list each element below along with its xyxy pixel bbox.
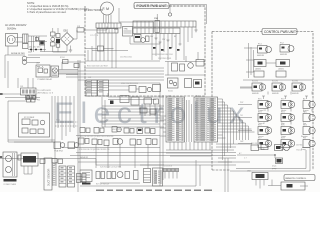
sensor cell row B [79,138,158,146]
duct sensor box [44,158,52,190]
power trans T11 [3,152,17,186]
varistor ZNR1 column [56,28,60,52]
opto coupler IC511 [168,78,202,93]
remote control parts [268,180,308,191]
svg-text:L502: L502 [36,63,40,65]
duct sensor pin column [52,162,57,186]
svg-text:4069UB: 4069UB [280,54,288,56]
svg-text:C502 R501 ZD501: C502 R501 ZD501 [158,58,171,60]
wire row6 [237,152,276,160]
cells above duct sensor [54,142,79,153]
terminal strip TB1 [0,78,54,102]
svg-text:IC5 2/6: IC5 2/6 [272,81,278,83]
power PWB unit label box [134,3,169,9]
driver Q2 row1 [272,81,286,96]
cap C51 pair [172,60,205,72]
jumper row X [164,169,179,179]
transformer tap wires [150,27,192,60]
svg-text:RY2: RY2 [281,99,284,101]
control top photocoupler PC1 [257,44,272,58]
svg-text:POWER TRANS: POWER TRANS [4,183,17,186]
wires relay right [59,62,86,75]
resistor pair R21 [96,172,105,179]
svg-text:IC511: IC511 [168,91,173,93]
driver Q11 row5 [281,138,295,152]
svg-text:CONTROL PWB UNIT: CONTROL PWB UNIT [264,30,296,34]
AC plug P1 [6,34,18,47]
driver Q5 row2 [281,99,295,113]
driver Q7 row3 [281,112,295,126]
microcontroller IC2 right column [194,96,218,143]
svg-text:PC1: PC1 [258,44,262,46]
connector CN2 block [86,80,109,96]
svg-text:IC21 R25 Q21 C24 IC22: IC21 R25 Q21 C24 IC22 SW1 [100,167,121,169]
left mid wires [5,55,85,88]
connector CN9 [247,171,268,189]
bottom right bus [230,147,310,171]
regulator IC52 [276,60,290,71]
svg-text:F11: F11 [37,100,40,102]
svg-text:POWER RELAY: POWER RELAY [38,78,53,81]
vertical bus left-mid [55,96,78,140]
buzzer BZ row2 [303,99,315,113]
svg-text:R31 C31 R32 C32 Q31: R31 C31 R32 C32 Q31 R33 C33 D31 R34 R35 [80,136,113,138]
capacitor C1 cluster [28,36,47,52]
driver Q6 row3 [258,112,272,126]
fuse pair F11 F12 [5,96,40,102]
tap labels [152,54,173,60]
ground sym T1 [194,27,197,32]
svg-text:R501 C505 D505 C507 R507: R501 C505 D505 C507 R507 [87,66,108,68]
bottom mid op-amp IC21 [80,170,92,185]
svg-text:CN9: CN9 [247,171,251,173]
svg-text:IC512 C514 R515 ZD51: IC512 C514 R515 ZD51 [121,83,138,85]
misc labels bottom mid [96,166,172,186]
wire plug to filter [8,38,23,56]
fan out FAN row3 [303,111,315,126]
note text block [27,1,90,14]
svg-text:ZNR: ZNR [154,18,159,20]
control left bus [240,43,313,88]
regulator cluster IC511 [108,85,161,93]
svg-text:RY POWER: RY POWER [24,117,35,119]
microcontroller IC1 left column [166,96,185,143]
svg-text:CMP: CMP [240,141,244,143]
power PWB unit boundary [85,6,205,96]
small box top [85,46,128,51]
watermark Electrolux [54,97,251,130]
terminal mark left edge [0,93,3,158]
svg-text:UNIT (N) (L) 1 2 3: UNIT (N) (L) 1 2 3 [37,93,54,95]
AC input text [5,24,27,30]
wire fan IC bottom [166,142,234,156]
connector CN11 dark [18,153,38,174]
small box R15 [63,60,80,68]
wire fan IC right to control [187,99,255,162]
bridge rectifier DB1 [61,31,74,46]
control PWB unit label box [262,29,297,35]
power right cluster wires [165,52,205,76]
footer text dashes [96,190,212,191]
drain pump DP [272,158,283,170]
svg-text:IC5 3/6: IC5 3/6 [292,81,298,83]
cap C21 [134,171,139,180]
row6 components [251,143,303,152]
svg-text:IC5 1/6: IC5 1/6 [252,81,258,83]
svg-text:J1 J2 J3 J4: J1 J2 J3 J4 [164,166,172,168]
svg-text:TH-A TH-B: TH-A TH-B [54,150,64,153]
wire bridge bottom [28,45,67,52]
register out row4 [301,125,315,139]
svg-text:LM431: LM431 [278,69,284,71]
svg-text:RY501: RY501 [60,57,65,59]
svg-text:RY7: RY7 [258,138,261,140]
rectifier diodes D1-D4 row [153,47,180,51]
svg-text:D501 D502 D503 D504 C501: D501 D502 D503 D504 C501 [152,54,173,56]
driver Q10 row5 [258,138,272,152]
resistor block R51 [254,71,286,77]
pump out row5 [301,138,315,152]
svg-text:RY4: RY4 [281,112,284,114]
left mid loop wire [8,101,55,142]
ground G1 [69,46,72,53]
svg-text:D11 D12 D13: D11 D12 D13 [29,47,40,49]
diode row D11 [28,47,46,51]
fan motor FM [101,2,114,23]
connector CN13 pair [77,174,87,183]
svg-text:SENSOR: SENSOR [80,157,89,159]
svg-text:4069UB: 4069UB [292,93,299,95]
noise filter block L1 [23,34,29,49]
regulator IC51 [254,60,276,71]
svg-text:3. Parts of parentheses are no: 3. Parts of parentheses are not used. [27,11,67,14]
svg-text:CN2: CN2 [88,77,91,79]
IC22 tall [144,169,151,183]
svg-text:REMOTE CONTROL: REMOTE CONTROL [286,178,307,180]
svg-text:RY3: RY3 [258,112,261,114]
svg-text:PC2: PC2 [280,43,284,45]
svg-text:CN5: CN5 [20,86,23,88]
svg-text:C.T: C.T [244,158,247,160]
5V regulator area wires [100,83,164,131]
dip block SW1 [153,168,163,186]
motor symbol M1 [51,66,59,77]
cap marks row1 [262,96,308,99]
svg-text:R61 C61 Q61: R61 C61 Q61 [251,143,261,145]
varistor ZNR2 [154,5,207,33]
connector CN12 columns [59,166,75,187]
relay box K11 [19,113,50,137]
wire bus left of IC [160,95,166,186]
capacitor C2 dark [40,41,45,46]
driver Q8 row4 [258,125,272,139]
svg-text:NOISE FILTER: NOISE FILTER [11,53,25,55]
svg-text:t° C.L: t° C.L [56,119,61,122]
svg-text:T.Sensor: T.Sensor [296,150,303,152]
relay RY2 cluster [119,8,160,44]
control grid wires [238,87,312,144]
svg-text:1 3 5 7 9 11: 1 3 5 7 9 11 [90,35,98,37]
svg-text:RY1: RY1 [258,99,261,101]
driver Q4 row2 [258,99,272,113]
transformer T1 secondary row [133,28,180,34]
transformer T1 primary row [133,21,196,27]
driver Q3 row1 [292,81,306,96]
control row labels [240,102,244,143]
small boxes mid-left [40,159,63,164]
tap ground symbols [155,38,182,45]
svg-text:LM431: LM431 [255,69,261,71]
svg-text:AC 200V 50/60Hz: AC 200V 50/60Hz [84,9,104,12]
transistor Q21 cluster [117,172,130,179]
svg-text:RY8: RY8 [281,138,284,140]
svg-text:RY6: RY6 [281,125,284,127]
resistor pair R22 [107,172,116,179]
choke coil L2 [11,53,40,64]
connector CN10 fan [96,23,121,33]
svg-text:DUCT SENSOR: DUCT SENSOR [48,168,51,186]
svg-text:IC31 R36 C36 C37 Q: IC31 R36 C36 C37 Q32 R38 C38 R39 C39 [79,149,110,151]
remote control unit box [284,175,315,181]
svg-text:C65 R65: C65 R65 [296,145,302,147]
bottom long wires [78,60,250,192]
wires under relay box [8,96,58,165]
power relay box RY11 [36,65,53,81]
svg-text:R27 C27 R28 C29: R27 C27 R28 C29 [96,184,109,186]
thermal fuse TH1 box [114,27,133,37]
driver Q9 row4 [281,125,295,139]
svg-text:C511 R511 D511: C511 R511 D511 [120,57,132,59]
sensor bus wires [0,136,236,169]
fuse F1 [74,26,108,39]
driver Q1 row1 [252,81,266,96]
svg-text:DB1: DB1 [64,31,69,33]
svg-text:4069UB: 4069UB [257,55,265,57]
misc part labels power unit [20,35,138,88]
svg-text:4069UB: 4069UB [252,93,259,95]
wire bus horizontal bundle [58,68,164,83]
sensor cell row A [80,127,155,134]
svg-text:POWER PWB UNIT: POWER PWB UNIT [137,4,167,8]
svg-text:RY5: RY5 [258,125,261,127]
wire bus top left [85,33,160,68]
svg-text:REG: REG [303,125,307,127]
svg-text:F. M: F. M [103,7,110,11]
control top photocoupler PC2 [280,43,294,57]
relay RY1 column [51,28,56,52]
control PWB unit boundary [212,32,313,171]
svg-text:4069UB: 4069UB [272,93,279,95]
svg-text:50/60Hz: 50/60Hz [7,27,17,30]
